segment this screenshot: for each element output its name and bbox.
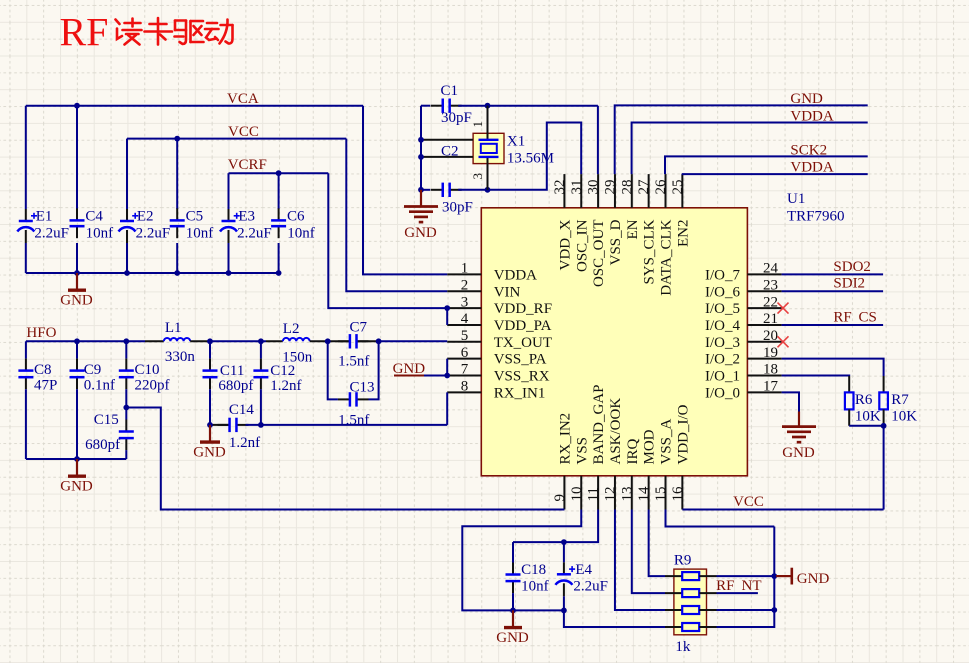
svg-text:RF: RF bbox=[60, 10, 109, 55]
svg-text:19: 19 bbox=[763, 345, 778, 361]
svg-text:E4: E4 bbox=[575, 562, 592, 578]
svg-text:4: 4 bbox=[461, 311, 469, 327]
svg-text:220pf: 220pf bbox=[135, 378, 170, 394]
svg-text:30pF: 30pF bbox=[442, 200, 473, 216]
svg-text:SYS_CLK: SYS_CLK bbox=[642, 219, 658, 284]
svg-text:14: 14 bbox=[636, 486, 652, 502]
svg-text:15: 15 bbox=[653, 487, 669, 502]
svg-text:TX_OUT: TX_OUT bbox=[494, 335, 552, 351]
svg-text:30pF: 30pF bbox=[441, 110, 472, 126]
svg-text:OSC_IN: OSC_IN bbox=[574, 219, 590, 272]
svg-text:C13: C13 bbox=[350, 379, 375, 395]
svg-text:10nf: 10nf bbox=[86, 226, 114, 242]
svg-text:VDDA: VDDA bbox=[790, 108, 833, 124]
svg-text:21: 21 bbox=[763, 311, 778, 327]
svg-text:C2: C2 bbox=[441, 144, 459, 160]
svg-text:ASK/OOK: ASK/OOK bbox=[608, 398, 624, 465]
svg-text:23: 23 bbox=[763, 277, 778, 293]
svg-text:7: 7 bbox=[461, 362, 469, 378]
svg-text:VIN: VIN bbox=[494, 284, 521, 300]
svg-text:25: 25 bbox=[670, 180, 686, 195]
svg-text:10K: 10K bbox=[855, 408, 881, 424]
svg-text:IRQ: IRQ bbox=[625, 439, 641, 465]
svg-text:MOD: MOD bbox=[642, 429, 658, 464]
svg-text:1: 1 bbox=[470, 121, 485, 128]
svg-text:0.1nf: 0.1nf bbox=[84, 378, 115, 394]
svg-text:TRF7960: TRF7960 bbox=[787, 209, 845, 225]
svg-text:10K: 10K bbox=[891, 408, 917, 424]
svg-text:R7: R7 bbox=[891, 392, 909, 408]
svg-text:27: 27 bbox=[636, 179, 652, 195]
svg-text:C9: C9 bbox=[84, 362, 102, 378]
svg-text:1.5nf: 1.5nf bbox=[338, 412, 369, 428]
svg-text:VCC: VCC bbox=[733, 494, 764, 510]
svg-text:C7: C7 bbox=[350, 320, 368, 336]
svg-text:L2: L2 bbox=[283, 321, 300, 337]
svg-text:I/O_6: I/O_6 bbox=[705, 284, 740, 300]
svg-text:L1: L1 bbox=[165, 320, 182, 336]
svg-text:VCC: VCC bbox=[228, 124, 259, 140]
svg-text:VDDA: VDDA bbox=[494, 267, 537, 283]
svg-text:GND: GND bbox=[496, 630, 529, 646]
svg-text:HFO: HFO bbox=[26, 325, 56, 341]
svg-text:680pf: 680pf bbox=[85, 437, 120, 453]
svg-text:32: 32 bbox=[552, 180, 568, 195]
svg-text:GND: GND bbox=[782, 445, 815, 461]
svg-text:C4: C4 bbox=[85, 209, 103, 225]
svg-text:10nf: 10nf bbox=[186, 226, 214, 242]
svg-text:22: 22 bbox=[763, 294, 778, 310]
svg-text:6: 6 bbox=[461, 345, 469, 361]
svg-text:GND: GND bbox=[60, 478, 93, 494]
svg-text:10nf: 10nf bbox=[287, 226, 315, 242]
svg-text:2.2uF: 2.2uF bbox=[573, 579, 608, 595]
svg-text:3: 3 bbox=[461, 294, 469, 310]
svg-text:C14: C14 bbox=[229, 402, 255, 418]
svg-text:RF: RF bbox=[716, 578, 734, 594]
svg-text:I/O_4: I/O_4 bbox=[705, 318, 740, 334]
svg-text:SCK2: SCK2 bbox=[790, 142, 827, 158]
svg-text:VSS_A: VSS_A bbox=[659, 418, 675, 464]
svg-text:1: 1 bbox=[461, 261, 469, 277]
svg-text:I/O_1: I/O_1 bbox=[705, 369, 740, 385]
svg-text:C12: C12 bbox=[270, 363, 295, 379]
svg-text:31: 31 bbox=[569, 180, 585, 195]
svg-text:BAND_GAP: BAND_GAP bbox=[591, 384, 607, 464]
svg-text:24: 24 bbox=[763, 261, 779, 277]
svg-text:I/O_5: I/O_5 bbox=[705, 301, 740, 317]
svg-text:30: 30 bbox=[586, 180, 602, 195]
svg-text:DATA_CLK: DATA_CLK bbox=[659, 219, 675, 295]
svg-text:OSC_OUT: OSC_OUT bbox=[591, 220, 607, 288]
svg-text:10nf: 10nf bbox=[521, 579, 549, 595]
svg-text:C18: C18 bbox=[521, 562, 546, 578]
svg-text:I/O_7: I/O_7 bbox=[705, 267, 740, 283]
svg-text:2.2uF: 2.2uF bbox=[34, 226, 69, 242]
svg-text:29: 29 bbox=[602, 180, 618, 195]
svg-text:C5: C5 bbox=[186, 209, 204, 225]
svg-text:5: 5 bbox=[461, 328, 469, 344]
svg-text:GND: GND bbox=[790, 91, 823, 107]
svg-text:VCRF: VCRF bbox=[228, 157, 267, 173]
svg-text:13.56M: 13.56M bbox=[507, 150, 554, 166]
svg-text:3: 3 bbox=[470, 173, 485, 180]
svg-text:SDI2: SDI2 bbox=[833, 276, 865, 292]
svg-text:10: 10 bbox=[569, 487, 585, 502]
svg-text:GND: GND bbox=[797, 571, 830, 587]
svg-text:C11: C11 bbox=[220, 363, 244, 379]
svg-text:13: 13 bbox=[619, 487, 635, 502]
svg-text:GND: GND bbox=[393, 361, 426, 377]
svg-text:GND: GND bbox=[404, 225, 437, 241]
svg-text:VDD_PA: VDD_PA bbox=[494, 318, 552, 334]
svg-text:U1: U1 bbox=[787, 191, 805, 207]
svg-text:EN: EN bbox=[625, 219, 641, 239]
svg-text:12: 12 bbox=[602, 487, 618, 502]
svg-text:EN2: EN2 bbox=[675, 220, 691, 248]
svg-text:2.2uF: 2.2uF bbox=[237, 226, 272, 242]
svg-text:VSS: VSS bbox=[574, 437, 590, 465]
svg-text:E2: E2 bbox=[137, 209, 154, 225]
svg-text:GND: GND bbox=[60, 292, 93, 308]
svg-text:VCA: VCA bbox=[227, 91, 259, 107]
svg-text:C10: C10 bbox=[135, 362, 160, 378]
svg-text:C15: C15 bbox=[94, 412, 119, 428]
svg-text:9: 9 bbox=[552, 494, 568, 502]
svg-text:X1: X1 bbox=[507, 134, 525, 150]
svg-text:I/O_0: I/O_0 bbox=[705, 385, 740, 401]
svg-text:R6: R6 bbox=[855, 392, 873, 408]
svg-text:1k: 1k bbox=[675, 639, 691, 655]
svg-text:C1: C1 bbox=[441, 83, 459, 99]
svg-text:330n: 330n bbox=[165, 349, 196, 365]
svg-text:1.2nf: 1.2nf bbox=[270, 378, 301, 394]
svg-text:VSS_PA: VSS_PA bbox=[494, 352, 547, 368]
svg-text:1.2nf: 1.2nf bbox=[229, 435, 260, 451]
svg-text:NT: NT bbox=[742, 578, 762, 594]
svg-text:SDO2: SDO2 bbox=[833, 259, 871, 275]
svg-text:GND: GND bbox=[193, 444, 226, 460]
svg-text:E3: E3 bbox=[238, 209, 255, 225]
svg-text:8: 8 bbox=[461, 379, 469, 395]
svg-text:26: 26 bbox=[653, 179, 669, 195]
svg-text:20: 20 bbox=[763, 328, 778, 344]
svg-text:RX_IN1: RX_IN1 bbox=[494, 385, 546, 401]
svg-text:16: 16 bbox=[670, 486, 686, 502]
svg-text:C6: C6 bbox=[287, 209, 305, 225]
svg-text:VSS_D: VSS_D bbox=[608, 219, 624, 265]
svg-text:47P: 47P bbox=[34, 378, 57, 394]
svg-text:VDD_I/O: VDD_I/O bbox=[675, 404, 691, 464]
svg-text:VDD_RF: VDD_RF bbox=[494, 301, 552, 317]
svg-text:2.2uF: 2.2uF bbox=[136, 226, 171, 242]
svg-text:RF: RF bbox=[833, 309, 851, 325]
svg-text:I/O_2: I/O_2 bbox=[705, 352, 740, 368]
svg-text:11: 11 bbox=[586, 487, 602, 501]
svg-text:18: 18 bbox=[763, 362, 778, 378]
svg-text:C8: C8 bbox=[34, 362, 52, 378]
svg-text:I/O_3: I/O_3 bbox=[705, 335, 740, 351]
svg-text:680pf: 680pf bbox=[218, 378, 253, 394]
svg-text:R9: R9 bbox=[674, 552, 692, 568]
svg-text:VSS_RX: VSS_RX bbox=[494, 369, 550, 385]
svg-text:CS: CS bbox=[859, 309, 877, 325]
svg-text:E1: E1 bbox=[36, 209, 53, 225]
svg-text:VDD_X: VDD_X bbox=[557, 219, 573, 270]
svg-text:17: 17 bbox=[763, 379, 779, 395]
svg-text:2: 2 bbox=[461, 277, 469, 293]
svg-text:1.5nf: 1.5nf bbox=[338, 353, 369, 369]
svg-text:28: 28 bbox=[619, 180, 635, 195]
svg-text:RX_IN2: RX_IN2 bbox=[557, 413, 573, 465]
svg-text:VDDA: VDDA bbox=[790, 159, 833, 175]
